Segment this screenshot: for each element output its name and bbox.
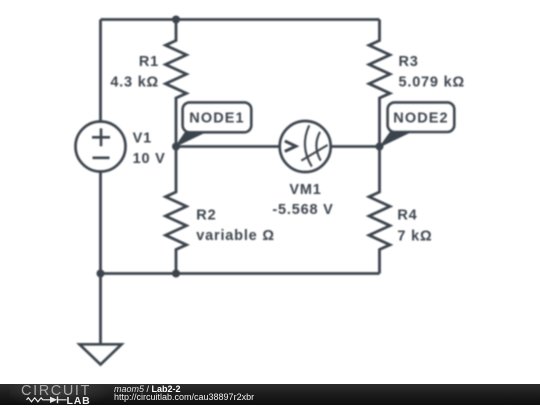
- wire ground stem: [99, 274, 102, 345]
- svg-text:R3: R3: [399, 54, 419, 70]
- svg-text:4.3 kΩ: 4.3 kΩ: [110, 74, 159, 90]
- wire VM1 to node2: [331, 145, 380, 148]
- footer text: [114, 385, 414, 405]
- wire bottom rail: [101, 272, 380, 275]
- node NODE2 callout: [380, 102, 454, 146]
- svg-text:variable Ω: variable Ω: [196, 228, 274, 244]
- node ground junction: [97, 270, 105, 278]
- svg-text:R2: R2: [196, 207, 216, 223]
- svg-text:10 V: 10 V: [133, 151, 166, 167]
- resistor R2: [166, 147, 187, 274]
- wire V1 top lead: [99, 20, 102, 122]
- ground: [80, 344, 122, 364]
- wire node1 to VM1: [176, 145, 280, 148]
- svg-text:-5.568 V: -5.568 V: [272, 202, 333, 218]
- wire top rail: [101, 18, 380, 21]
- node bottom R2 junction: [172, 270, 180, 278]
- svg-text:VM1: VM1: [289, 182, 321, 198]
- label R3 value: [399, 54, 465, 91]
- wire V1 bottom lead: [99, 172, 102, 274]
- logo resistor-diode drawing: [0, 384, 70, 405]
- node NODE2 junction: [376, 143, 384, 151]
- node top R1 junction: [172, 16, 180, 24]
- svg-text:NODE2: NODE2: [393, 111, 448, 127]
- svg-text:7 kΩ: 7 kΩ: [397, 228, 432, 244]
- svg-text:5.079 kΩ: 5.079 kΩ: [399, 74, 465, 90]
- logo LAB: [67, 395, 91, 407]
- voltage source V1: [76, 122, 126, 172]
- label R4 value: [397, 207, 432, 244]
- svg-text:R1: R1: [139, 54, 159, 70]
- voltmeter VM1: [280, 121, 331, 172]
- node NODE1 junction: [172, 143, 180, 151]
- label R1 value: [110, 54, 159, 90]
- footer bar: [0, 384, 540, 405]
- label V1 value: [133, 130, 166, 167]
- label VM1 value: [272, 182, 333, 218]
- resistor R1: [166, 20, 187, 147]
- svg-text:V1: V1: [133, 130, 152, 146]
- resistor R3: [369, 20, 390, 147]
- svg-text:NODE1: NODE1: [189, 111, 244, 127]
- node NODE1 callout: [176, 102, 252, 146]
- logo CIRCUIT: [21, 383, 91, 399]
- svg-text:R4: R4: [397, 207, 417, 223]
- resistor R4: [369, 147, 390, 274]
- label R2 value: [196, 207, 274, 243]
